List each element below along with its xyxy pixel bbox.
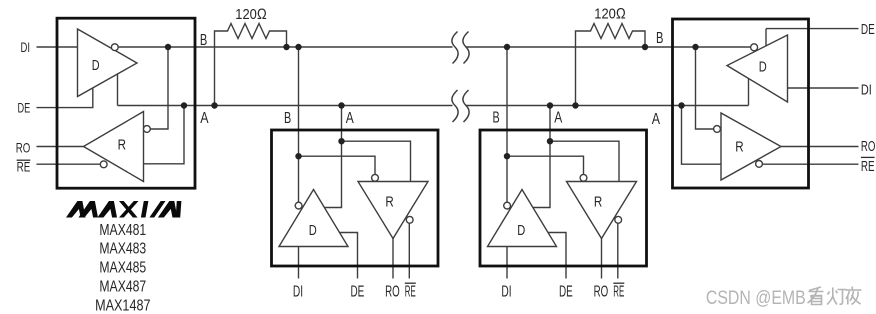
svg-text:DE: DE: [861, 21, 875, 38]
svg-text:D: D: [759, 58, 767, 75]
svg-text:RO: RO: [16, 139, 31, 155]
svg-text:RO: RO: [861, 138, 876, 155]
svg-text:A: A: [554, 110, 563, 127]
svg-text:MAX487: MAX487: [99, 279, 146, 296]
svg-text:MAX483: MAX483: [99, 241, 146, 258]
svg-text:D: D: [92, 57, 100, 74]
svg-text:MAX485: MAX485: [99, 260, 146, 277]
svg-text:MAX1487: MAX1487: [95, 297, 150, 314]
svg-text:A: A: [652, 111, 661, 128]
svg-text:B: B: [493, 110, 500, 127]
svg-text:120Ω: 120Ω: [594, 6, 626, 23]
svg-text:MAX481: MAX481: [99, 222, 146, 239]
svg-text:B: B: [284, 110, 291, 127]
svg-text:R: R: [118, 137, 127, 154]
svg-text:R: R: [735, 139, 744, 156]
svg-text:RE: RE: [861, 158, 875, 175]
svg-text:A: A: [346, 110, 355, 127]
svg-text:120Ω: 120Ω: [235, 6, 266, 23]
svg-text:A: A: [200, 110, 209, 127]
svg-text:B: B: [656, 30, 663, 47]
svg-text:DE: DE: [18, 100, 31, 116]
svg-text:DI: DI: [21, 39, 31, 55]
svg-text:B: B: [200, 32, 207, 49]
svg-text:DI: DI: [861, 82, 872, 99]
svg-text:CSDN @EMB: CSDN @EMB: [706, 287, 806, 309]
